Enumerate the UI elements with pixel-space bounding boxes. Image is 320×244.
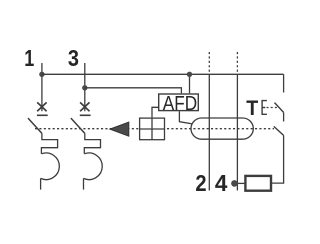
svg-text:3: 3 bbox=[68, 45, 79, 71]
fixed contact seat pole 3 bbox=[80, 114, 91, 116]
svg-text:4: 4 bbox=[215, 170, 228, 196]
thermal release pole 3 (square bump) bbox=[84, 133, 100, 153]
svg-text:2: 2 bbox=[195, 170, 206, 196]
magnetic release pole 3 (arc) bbox=[84, 153, 103, 180]
test resistor bbox=[245, 176, 271, 191]
wire: pole 3 bottom tail bbox=[83, 178, 85, 189]
wire: AFD bottom tap to toroid bbox=[179, 111, 192, 124]
current transformer toroid (stadium shape) bbox=[191, 118, 253, 139]
wire: dashed upper section of line to terminal 2 bbox=[208, 52, 210, 74]
wire: resistor to pole 4 line bbox=[237, 182, 245, 184]
contact cross X pole 3 bbox=[80, 102, 89, 111]
test button contact blade bbox=[275, 103, 284, 113]
AFD unit box bbox=[159, 94, 199, 111]
node dot AFD tap bbox=[187, 72, 192, 77]
fixed contact seat pole 1 bbox=[37, 114, 48, 116]
thermal release pole 1 (square bump) bbox=[41, 133, 57, 153]
switch blade pole 1 bbox=[28, 118, 42, 133]
wire: between test contact and main contact bbox=[283, 112, 285, 121]
node dot pole 3 junction bbox=[82, 85, 87, 90]
wire: pole 1 bottom tail bbox=[40, 178, 42, 189]
wire: test branch corner down from top bus bbox=[283, 74, 285, 92]
push button actuator (E symbol) bbox=[262, 101, 267, 115]
contact cross X pole 1 bbox=[37, 102, 46, 111]
node dot pole 1 junction bbox=[39, 72, 44, 77]
wire: crossed box to AFD left side bbox=[152, 107, 158, 117]
wire: pole line through toroid to terminal 4 bbox=[236, 74, 238, 190]
svg-text:T: T bbox=[246, 97, 258, 120]
wire: dashed link button to blade bbox=[267, 107, 279, 109]
wire: test branch down to resistor bbox=[272, 135, 284, 183]
wire: pole 1 input vertical bbox=[41, 63, 43, 111]
trip arrow (actuator) bbox=[110, 122, 129, 136]
wire: tap from top bus down to AFD box bbox=[189, 74, 191, 93]
trip relay K (crossed box) bbox=[140, 118, 165, 140]
wire: main dashed mechanical link line bbox=[35, 128, 274, 130]
wire: pole line through toroid to terminal 2 bbox=[208, 74, 210, 190]
main linked contact blade (test circuit) bbox=[274, 126, 284, 135]
wire: dashed upper section of line to terminal 4 bbox=[236, 52, 238, 74]
switch blade pole 3 bbox=[71, 118, 85, 133]
wire: branch pole 3 to AFD box bbox=[85, 88, 182, 93]
wire: top bus from pole 1 to test branch bbox=[42, 73, 284, 75]
node dot resistor junction on pole 4 bbox=[231, 180, 238, 187]
magnetic release pole 1 (arc) bbox=[41, 153, 60, 180]
svg-text:1: 1 bbox=[24, 45, 34, 71]
wire: pole 3 input vertical bbox=[84, 63, 86, 111]
